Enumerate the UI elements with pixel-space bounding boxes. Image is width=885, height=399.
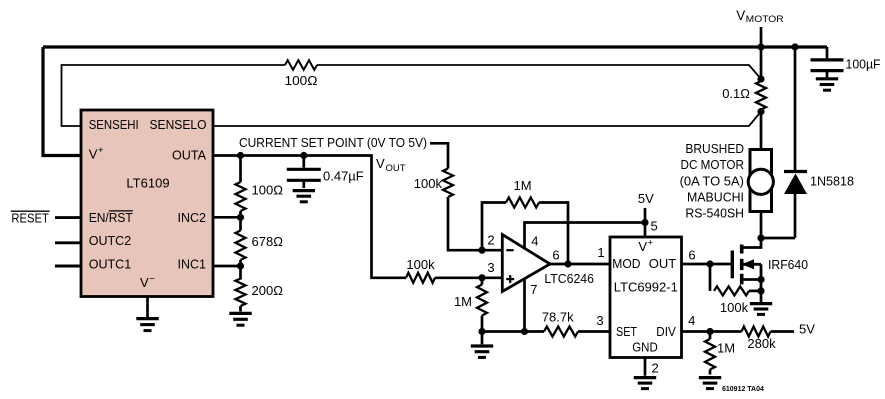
label 1M DIV [717,341,735,356]
svg-text:MOTOR: MOTOR [746,14,784,25]
wire feedback to output [539,203,568,265]
junction noninverting input [478,274,485,281]
wire 5V to V+ pin [644,208,647,237]
capacitor C2 100uF [811,47,844,78]
svg-text:7: 7 [530,282,537,297]
svg-text:DIV: DIV [656,324,676,339]
label 100R chain [252,183,284,198]
label 100uF [846,57,881,72]
wire 78.7k to SET [578,330,610,333]
resistor R7 100k gate pulldown [710,264,761,295]
wire RESET to EN/RST [55,216,81,219]
svg-text:0.1Ω: 0.1Ω [722,86,750,101]
label IRF640 [768,257,808,272]
wire drain node [761,237,795,240]
wire analog ground rail [482,330,544,333]
wire 200R to ground [239,306,242,312]
wire DIV node [682,330,742,333]
svg-text:2: 2 [652,361,659,376]
wire VMOTOR stem [760,27,763,79]
wire 100k to inverting node [448,197,502,250]
svg-text:LTC6992-1: LTC6992-1 [614,280,678,295]
svg-text:1M: 1M [717,341,735,356]
label 100k vertical [414,176,443,191]
feedback wire [482,203,506,251]
pin number 6 OUT [688,248,695,263]
wire outer feedback to V+ pin [43,47,81,156]
svg-text:V: V [376,156,385,171]
svg-text:EN/RST: EN/RST [89,210,133,225]
op-amp supply pin 4 wire [525,223,646,250]
svg-text:610912 TA04: 610912 TA04 [722,386,764,393]
label motor description [680,141,744,220]
svg-text:280k: 280k [747,336,776,351]
svg-text:OUT: OUT [649,256,677,271]
wire SENSEHI lead [62,65,286,126]
svg-text:INC2: INC2 [178,210,207,225]
svg-text:6: 6 [688,248,695,263]
stub OUTC2 [55,241,81,244]
op-amp minus sign [506,249,513,251]
wire 100R to INC2 node [239,211,242,231]
svg-text:SET: SET [616,324,637,339]
wire motor to drain node [760,212,763,239]
wire VMOTOR rail [43,45,827,48]
svg-text:100µF: 100µF [846,57,881,72]
label 1M feedback [513,178,531,193]
label 0.1R [722,86,750,101]
resistor R6 100k to +input [406,273,435,283]
resistor R11 1M DIV [705,332,715,375]
label CURRENT SET POINT [239,135,427,150]
junction sense-resistor top [757,75,764,82]
wire GND pin [644,358,647,376]
net 5V at DIV [799,321,815,336]
resistor R3 678R [236,231,246,261]
svg-text:V: V [140,275,149,290]
pin number 5 [651,219,658,234]
svg-text:SENSEHI: SENSEHI [89,117,139,132]
op-amp pin 7 wire [523,278,526,332]
pin number 6 opamp [552,247,559,262]
svg-text:RESET: RESET [11,211,49,226]
wire OUTA node [213,156,406,278]
IC U1 LT6109 body [81,110,213,297]
junction 100k ground node [757,287,764,294]
wire chain OUTA to 100R [239,156,242,183]
IC U3 LTC6992-1 body [610,237,682,358]
ground (MOSFET source) [750,291,772,315]
resistor RS 0.1R sense [756,81,766,110]
label 280k [747,336,776,351]
svg-text:V: V [736,8,745,23]
svg-text:IRF640: IRF640 [768,257,808,272]
svg-text:100k: 100k [414,176,443,191]
svg-text:1: 1 [597,245,604,260]
motor M1 [748,150,773,212]
svg-text:678Ω: 678Ω [252,234,284,249]
svg-text:200Ω: 200Ω [252,283,284,298]
resistor R12 280k [742,327,771,337]
junction OUTA-cap [300,152,307,159]
wire OUT to gate [682,263,733,266]
op-amp U2 LTC6246 [502,235,550,292]
wire set point tie [430,143,448,168]
pin number 7 [530,282,537,297]
label part number 610912 TA04 [722,386,764,393]
op-amp output wire [550,263,610,266]
svg-text:OUTA: OUTA [172,148,206,163]
resistor R10 78.7k [544,327,578,337]
svg-text:0.47µF: 0.47µF [323,168,364,183]
diode D1 1N5818 [784,47,807,238]
svg-text:GND: GND [632,339,658,354]
junction sense-resistor bottom [757,108,764,115]
junction diode branch on rail [791,43,798,50]
svg-text:4: 4 [531,234,538,249]
ground (LT6109 V-) [136,319,158,331]
pin label V+ (LTC6992) [638,237,653,254]
svg-text:1M: 1M [513,178,531,193]
stub OUTC1 [55,265,81,268]
svg-text:RS-540SH: RS-540SH [685,206,744,221]
svg-text:+: + [648,237,654,248]
ground (chain) [229,313,251,325]
svg-text:V: V [89,147,98,162]
svg-text:100Ω: 100Ω [285,73,318,88]
pin label MOD [612,256,640,271]
pin label EN/RST with overline [89,210,133,225]
svg-text:78.7k: 78.7k [542,310,574,325]
svg-text:2: 2 [487,233,494,248]
pin number 4 DIV [688,313,695,328]
pin label OUT [649,256,677,271]
label 100k horizontal [406,257,435,272]
svg-text:CURRENT SET POINT (0V TO 5V): CURRENT SET POINT (0V TO 5V) [239,135,427,150]
junction inverting input [478,247,485,254]
junction rail at 1M [478,328,485,335]
junction drain node [757,234,764,241]
net 5V at LTC6992 [638,191,654,206]
resistor R8 1M to ground rail [477,278,487,332]
label 100k gate [720,300,749,315]
svg-text:5: 5 [651,219,658,234]
label LT6109 [126,176,169,191]
svg-text:INC1: INC1 [178,256,207,271]
junction 5V supply [641,219,648,226]
svg-text:+: + [98,145,104,156]
pin number 2 [652,361,659,376]
pin label SENSEHI [89,117,139,132]
svg-text:(0A TO 5A): (0A TO 5A) [680,173,744,188]
junction source [757,276,764,283]
svg-text:3: 3 [596,313,603,328]
ground (100uF) [816,79,838,90]
svg-text:SENSELO: SENSELO [150,117,207,132]
pin label V+ (LT6109) [89,145,104,162]
svg-text:3: 3 [487,260,494,275]
ground (LTC6992) [634,378,656,389]
svg-text:−: − [149,273,155,284]
wire 678R to INC1 node [239,260,242,280]
pin label SENSELO [150,117,207,132]
pin number 2 [487,233,494,248]
pin label V- (LT6109) [140,273,155,290]
svg-text:OUTC2: OUTC2 [89,233,132,248]
wire sense to motor [760,112,763,150]
resistor R2 100R [236,182,246,211]
svg-text:LT6109: LT6109 [126,176,169,191]
op-amp plus sign [506,275,514,283]
net RESET label with overline [11,211,50,226]
svg-text:5V: 5V [799,321,815,336]
pin label GND [632,339,658,354]
junction INC2 [237,214,244,221]
svg-text:100k: 100k [720,300,749,315]
junction OUTA-chain [237,152,244,159]
junction INC1 [237,262,244,269]
pin label INC1 [178,256,207,271]
pin label OUTC1 [89,256,132,271]
svg-text:MABUCHI: MABUCHI [687,189,744,204]
label 0.47uF [323,168,364,183]
label 1M at +input [454,294,472,309]
wire SENSELO to sense resistor bottom [213,112,761,127]
svg-text:4: 4 [688,313,695,328]
pin number 3 SET [596,313,603,328]
svg-text:1N5818: 1N5818 [810,174,854,189]
wire 100k to noninverting node [435,276,502,279]
pin label INC2 [178,210,207,225]
label 100R top [285,73,318,88]
ground (op-amp rail) [471,332,493,358]
svg-text:1M: 1M [454,294,472,309]
svg-text:OUTC1: OUTC1 [89,256,132,271]
pin label DIV [656,324,676,339]
label LTC6246 [544,271,594,286]
junction rail at pin7 [521,328,528,335]
svg-text:6: 6 [552,247,559,262]
svg-text:DC MOTOR: DC MOTOR [681,157,745,172]
svg-text:MOD: MOD [612,256,640,271]
pin number 3 [487,260,494,275]
wire SENSEHI to sense resistor top [317,65,761,79]
resistor R4 200R [236,279,246,307]
label LTC6992-1 [614,280,678,295]
label VOUT [376,156,406,174]
junction DIV node [706,328,713,335]
label 200R [252,283,284,298]
wire V- to ground [146,297,149,318]
junction gate node [706,260,713,267]
resistor R9 1M feedback [506,198,539,208]
svg-text:V: V [638,239,647,254]
pin label OUTC2 [89,233,132,248]
capacitor C1 0.47uF [287,156,321,189]
svg-text:LTC6246: LTC6246 [544,271,594,286]
svg-text:BRUSHED: BRUSHED [685,141,744,156]
junction output node [564,260,571,267]
wire 280k to 5V [771,330,795,333]
wire INC2 pin [213,216,241,219]
svg-text:OUT: OUT [386,163,406,174]
wire INC1 pin [213,265,241,268]
pin number 1 [597,245,604,260]
ground (DIV 1M) [699,378,721,389]
transistor Q1 IRF640 [732,238,761,291]
svg-text:5V: 5V [638,191,654,206]
label 678R [252,234,284,249]
junction VMOTOR-rail [757,43,764,50]
net VMOTOR label [736,8,784,25]
svg-text:100k: 100k [406,257,435,272]
resistor R1 100R sense filter [285,60,317,70]
pin label OUTA [172,148,206,163]
pin label SET [616,324,637,339]
svg-text:100Ω: 100Ω [252,183,284,198]
resistor R5 100k vertical [443,169,453,198]
label 78.7k [542,310,574,325]
pin number 4 [531,234,538,249]
label 1N5818 [810,174,854,189]
ground (0.47uF) [293,191,315,202]
